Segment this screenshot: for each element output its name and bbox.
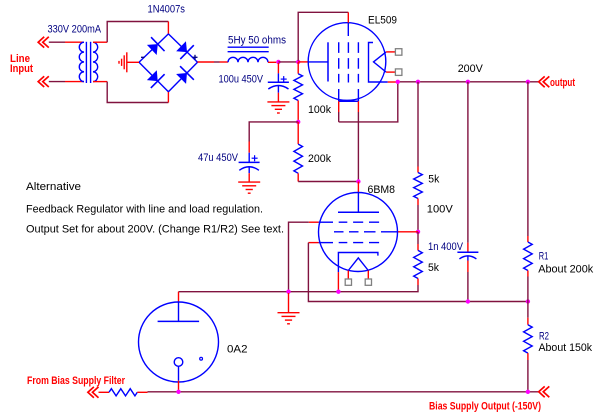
node dot bus2 [416, 80, 420, 84]
lead to 6BM8 g2 [398, 231, 419, 233]
svg-text:Input: Input [10, 63, 33, 75]
wire bridge to choke [198, 61, 215, 63]
svg-text:Output Set for about 200V. (Ch: Output Set for about 200V. (Change R1/R2… [26, 223, 284, 235]
line input connector chevron (bottom) [38, 76, 44, 87]
lead bridge top [167, 22, 169, 35]
lead R2 top [527, 318, 529, 325]
6BM8 grid 3 lead left [308, 242, 318, 244]
lead 200k bottom [297, 173, 299, 181]
6BM8 cathode [338, 253, 378, 273]
6BM8 grid 1 lead left [309, 221, 319, 223]
6BM8 pin square (right) [365, 279, 371, 285]
tube 0A2 envelope [139, 302, 219, 382]
svg-text:Bias Supply Output (-150V): Bias Supply Output (-150V) [429, 401, 541, 413]
node lower bus dot 2 [526, 299, 530, 303]
EL509 cathode leads down [338, 101, 340, 112]
bias output chevron [539, 386, 545, 397]
svg-text:About 200k: About 200k [538, 264, 593, 276]
lead bias resistor right [137, 391, 147, 393]
svg-text:R2: R2 [539, 331, 549, 343]
wire transformer bottom to bridge [107, 82, 168, 103]
svg-text:EL509: EL509 [368, 15, 397, 27]
diode D2 (top-right) [176, 41, 187, 52]
svg-text:output: output [550, 77, 575, 89]
node 6BM8 plate dot [356, 179, 360, 183]
svg-text:100u 450V: 100u 450V [219, 73, 264, 85]
node 6BM8 cathode dot [336, 290, 340, 294]
wire 5k to g2 node [417, 205, 419, 232]
lead R1 top [527, 236, 529, 242]
svg-text:Alternative: Alternative [26, 181, 81, 193]
line input connector chevron (top) [38, 37, 44, 48]
EL509 heater pin leads [386, 51, 396, 53]
EL509 pin square (top) [395, 49, 402, 56]
node feedback dot [296, 60, 300, 64]
lead bias resistor left [99, 391, 110, 393]
wire 5k2 to cathode bus [179, 285, 419, 292]
0A2 cathode circle [174, 358, 183, 367]
6BM8 heater pin leads [347, 271, 349, 283]
wire g2 node down [417, 232, 419, 244]
node divider dot [296, 120, 300, 124]
svg-text:About 150k: About 150k [539, 342, 593, 354]
0A2 anode lead [178, 292, 180, 303]
node dot bus4 [526, 80, 530, 84]
EL509 anode (left electrode) [309, 61, 329, 63]
0A2 anode bar [158, 320, 200, 322]
wire transformer top to bridge [107, 22, 168, 43]
tube 6BM8 envelope [319, 193, 398, 272]
svg-text:200V: 200V [458, 63, 484, 75]
svg-text:100k: 100k [308, 104, 331, 116]
6BM8 plate bar [338, 211, 379, 213]
6BM8 cathode lead down [337, 272, 339, 292]
6BM8 grid row 3 [319, 242, 333, 244]
label minus [141, 56, 144, 58]
wire 6BM8 g3 to lower bus [308, 243, 528, 302]
wire 1n cap to lower bus [467, 272, 469, 302]
node lower bus dot 1 [466, 299, 470, 303]
transformer T1 330V 200mA [65, 41, 84, 43]
node R2 bottom dot [526, 390, 530, 394]
lead bridge bottom [167, 92, 169, 103]
diode D4 (bottom-right) [176, 73, 187, 84]
svg-text:5Hy 50 ohms: 5Hy 50 ohms [228, 35, 286, 47]
capacitor C3 1n 400V [467, 243, 469, 253]
lead 100k bottom [297, 101, 299, 122]
EL509 grid column 3 [357, 42, 359, 82]
wire bus to 1n cap [467, 82, 469, 243]
svg-text:6BM8: 6BM8 [368, 184, 396, 196]
EL509 cathode bar and stems [338, 89, 340, 101]
wire R1 to lower bus [527, 277, 529, 302]
tube EL509 envelope [308, 23, 386, 101]
lead R2 bottom [527, 353, 529, 360]
EL509 top cap lead [347, 12, 349, 22]
resistor R2 About 150k [524, 325, 533, 353]
bias input chevron [88, 387, 94, 398]
svg-text:1n 400V: 1n 400V [428, 241, 464, 253]
node g2 dot [416, 230, 420, 234]
wire top bus 200V [398, 81, 539, 83]
wire 200k to 6BM8 plate [298, 181, 358, 183]
lead to EL509 anode [298, 61, 308, 63]
resistor R1 About 200k [524, 242, 533, 271]
0A2 gas dot [200, 357, 203, 360]
ground below cathode bus [288, 293, 290, 313]
svg-text:1N4007s: 1N4007s [148, 3, 186, 15]
lead 200k top [297, 122, 299, 144]
svg-text:330V 200mA: 330V 200mA [48, 24, 102, 36]
svg-text:Feedback Regulator with line a: Feedback Regulator with line and load re… [26, 204, 263, 216]
wire 6BM8 g1 to ground node [289, 222, 309, 292]
output connector chevron [539, 76, 545, 87]
6BM8 heater chevron [348, 258, 368, 271]
svg-text:R1: R1 [539, 251, 549, 263]
EL509 heater bracket [369, 43, 388, 83]
wire EL509 cathode to top bus [339, 83, 398, 122]
wire bus to 5k [417, 82, 419, 167]
EL509 heater return lead [388, 81, 398, 83]
lead 5k bottom [417, 199, 419, 206]
bridge rectifier frame 1N4007s [139, 34, 168, 62]
lead 5k top [417, 167, 419, 173]
ground at bridge minus [126, 52, 128, 72]
lead 100k top [297, 62, 299, 74]
0A2 cathode lead [178, 366, 180, 380]
wire EL509 top cap to feedback node [298, 12, 348, 61]
6BM8 grid row 2 [334, 231, 381, 233]
node choke output dot [276, 60, 280, 64]
node ground dot [286, 290, 290, 294]
EL509 grid column 2 [347, 42, 349, 82]
wire input top [49, 41, 65, 43]
svg-text:0A2: 0A2 [227, 344, 248, 356]
lead R1 bottom [527, 271, 529, 277]
svg-text:From Bias Supply Filter: From Bias Supply Filter [27, 375, 126, 387]
label plus [193, 56, 198, 58]
capacitor C1 100u 450V [277, 63, 279, 73]
wire R2 to bias bus [527, 360, 529, 392]
EL509 pin square (bottom) [395, 69, 402, 76]
lead 5k2 bottom [417, 279, 419, 286]
svg-text:5k: 5k [428, 174, 439, 186]
inductor L1 5Hy 50 ohms [228, 46, 269, 48]
6BM8 grid row 1 [319, 221, 333, 223]
EL509 grid column 1 [338, 42, 340, 82]
wire bus to R1 [527, 82, 529, 236]
ground below C1 [277, 93, 279, 102]
svg-text:100V: 100V [427, 204, 454, 216]
resistor 100k [294, 74, 303, 101]
6BM8 pin square (left) [345, 279, 351, 285]
wire divider to 47u [249, 122, 298, 142]
diode D1 (left-top) [147, 44, 158, 55]
resistor 5k (upper) [414, 173, 423, 199]
wire lower bus to R2 [527, 302, 529, 318]
svg-text:47u 450V: 47u 450V [198, 152, 239, 164]
diode D3 (left-bottom) [147, 70, 158, 81]
resistor bias filter [109, 389, 137, 396]
6BM8 plate lead [357, 182, 359, 193]
node dot bus3 [466, 80, 470, 84]
node 0A2 cathode dot [176, 390, 180, 394]
resistor 200k [294, 144, 303, 173]
lead 5k2 top [417, 244, 419, 250]
resistor 5k (lower) [414, 250, 423, 278]
ground below C2 [248, 173, 250, 182]
wire input bottom [49, 81, 65, 83]
wire bias bus [148, 391, 539, 393]
capacitor C2 47u 450V [248, 142, 250, 153]
wire choke node to feedback node [278, 61, 298, 63]
node dot bus1 [396, 80, 400, 84]
svg-text:200k: 200k [308, 153, 331, 165]
svg-text:5k: 5k [428, 262, 439, 274]
